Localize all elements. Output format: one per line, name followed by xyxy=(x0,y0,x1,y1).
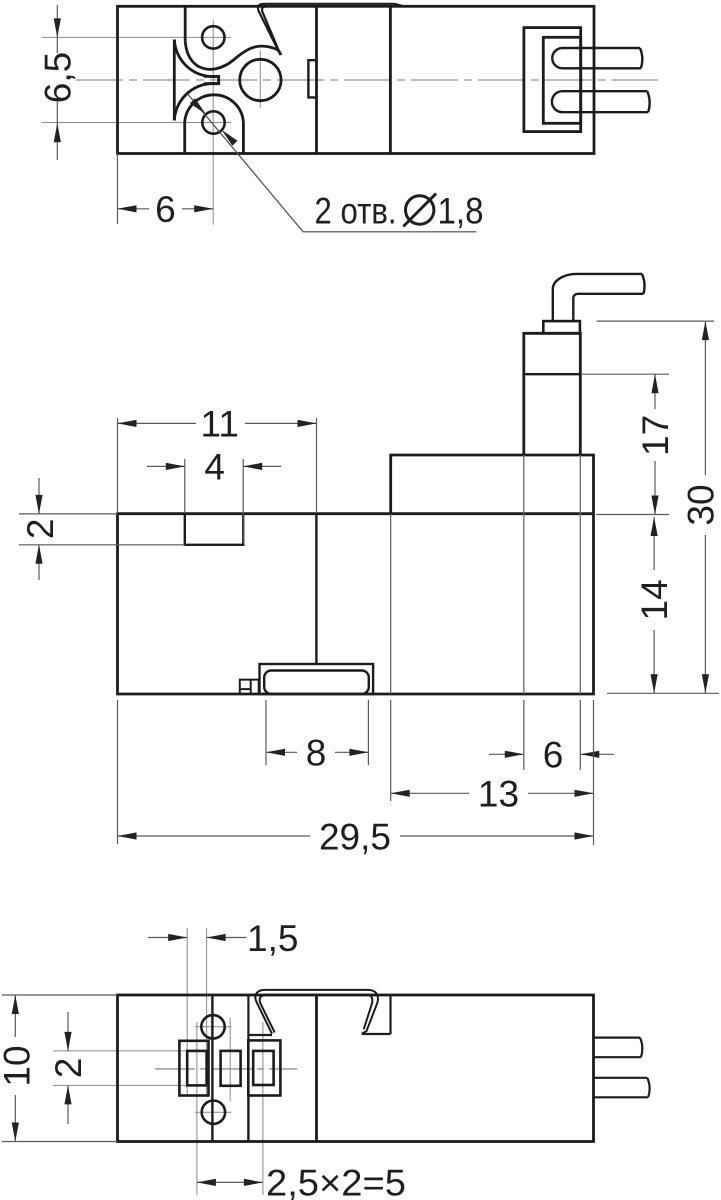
dimension 2 line xyxy=(38,478,40,580)
dimension 4 arrows xyxy=(166,463,262,470)
dimension 8 extensions xyxy=(266,700,368,765)
dimension 13 line xyxy=(391,792,594,794)
dimension 17 arrows xyxy=(651,374,658,514)
dimension 17 line xyxy=(654,374,656,514)
svg-text:29,5: 29,5 xyxy=(319,816,391,857)
dimension 11 arrows xyxy=(118,420,317,427)
dome around H2 xyxy=(185,95,244,154)
pin 2 bottom view xyxy=(594,1078,650,1098)
notch rect on division line xyxy=(308,60,316,97)
dimension 1,5 arrows xyxy=(168,934,225,941)
svg-text:14: 14 xyxy=(634,579,675,620)
dimension 8 line xyxy=(266,751,368,753)
pin 1 bottom view xyxy=(594,1038,643,1058)
notch on top edge xyxy=(185,514,243,545)
dimension 10 arrows xyxy=(12,995,19,1142)
leader arrowhead into hole lower-right xyxy=(222,130,238,146)
svg-text:13: 13 xyxy=(478,774,519,815)
clip spring outer line bottom view xyxy=(255,990,378,1034)
svg-text:6: 6 xyxy=(543,735,564,776)
left clip notch line xyxy=(248,995,272,1040)
dimension 29,5 extensions xyxy=(117,700,119,844)
svg-text:10: 10 xyxy=(0,1045,37,1086)
dimension 6 right arrows xyxy=(505,751,600,758)
pin 1 top view xyxy=(552,48,642,68)
circle B1 xyxy=(201,1015,224,1038)
crosshair circle C vertical xyxy=(259,51,261,108)
svg-text:30: 30 xyxy=(680,484,721,525)
dimension 11 extensions xyxy=(118,418,317,513)
svg-text:4: 4 xyxy=(204,447,225,488)
dimension 2,5x2=5 arrows xyxy=(197,1179,263,1186)
extension 1,5 verticals xyxy=(187,928,206,1097)
centerline bottom view xyxy=(155,1068,297,1070)
crosshair circle B1 xyxy=(195,1026,232,1028)
division line x=212.4 bottom xyxy=(211,995,213,1142)
diameter symbol xyxy=(403,194,436,227)
division line x=390.4 xyxy=(389,6,392,153)
crosshair hole H2 horizontal xyxy=(42,122,231,124)
lower outer arc around H2 xyxy=(174,83,218,120)
dimension 2 extensions xyxy=(19,514,185,545)
dimension 13 extensions xyxy=(391,514,594,845)
dimension 4 line xyxy=(147,465,281,467)
right clip notch xyxy=(362,995,391,1034)
slot C outer rect xyxy=(248,1040,280,1095)
dimension 29,5 line xyxy=(118,835,594,837)
tiny square detail xyxy=(240,680,259,694)
dimension 6,5 line xyxy=(56,5,58,160)
dimension 14 arrows xyxy=(651,517,658,693)
slot C inner rect xyxy=(253,1051,273,1085)
circle B2 xyxy=(202,1101,225,1124)
dimension 6 right extensions xyxy=(524,700,581,770)
crosshair holes vertical xyxy=(212,20,214,225)
connector inner rect xyxy=(543,37,580,123)
neck slot rectangle xyxy=(204,76,219,83)
dimension 6,5 arrow up xyxy=(54,123,61,142)
dimension 6 arrow right xyxy=(194,205,213,212)
tube division line xyxy=(524,373,581,375)
hole H2 xyxy=(202,111,224,133)
svg-text:2: 2 xyxy=(20,519,61,540)
dimension 6 right line xyxy=(489,753,614,755)
dimension 4 extensions xyxy=(185,459,243,544)
dimension 2 arrows xyxy=(35,495,42,564)
upper outer arc around H1 xyxy=(174,40,218,77)
dimension 11 line xyxy=(118,422,317,424)
body outline top view xyxy=(118,6,595,153)
dimension 2,5x2=5 line xyxy=(197,1181,263,1183)
extension body left edge down xyxy=(117,154,119,225)
svg-text:2: 2 xyxy=(48,1058,89,1079)
left clip notch line lower continuation xyxy=(247,1096,249,1142)
crosshair hole H1 horizontal xyxy=(42,36,231,38)
slot A inner rect xyxy=(187,1051,206,1086)
internal division line front xyxy=(315,514,317,664)
svg-text:1,8: 1,8 xyxy=(438,191,484,232)
dimension 30 line xyxy=(704,321,706,693)
svg-text:1,5: 1,5 xyxy=(247,918,298,959)
dimension 30 extensions xyxy=(597,321,719,693)
svg-text:2,5×2=5: 2,5×2=5 xyxy=(266,1163,406,1200)
internal top edge line to right xyxy=(391,512,594,515)
dimension 10 line xyxy=(14,995,16,1142)
inner pocket arc around H1 with S-curve into eyebrow arc over C xyxy=(185,41,281,70)
slot A outer rect xyxy=(179,1041,208,1096)
dimension 6 arrow left xyxy=(118,205,137,212)
spring clip inner line xyxy=(262,6,400,51)
division line x=316.5 xyxy=(315,6,318,153)
extension dim2 horizontals xyxy=(53,1051,187,1086)
dimension 6 line xyxy=(118,208,214,210)
circle C xyxy=(240,59,281,100)
leader line for holes xyxy=(188,94,477,232)
centerline top view xyxy=(76,79,658,81)
dimension 2 bottom arrows xyxy=(64,1032,71,1105)
svg-text:6,5: 6,5 xyxy=(37,52,78,103)
dimension 29,5 arrows xyxy=(118,832,594,839)
leader arrowhead into hole upper-left xyxy=(190,98,206,114)
body outline bottom view xyxy=(118,995,594,1142)
svg-text:11: 11 xyxy=(200,404,238,445)
svg-text:6: 6 xyxy=(155,189,176,230)
svg-text:2 отв.: 2 отв. xyxy=(315,191,397,232)
pin 2 top view xyxy=(552,91,650,112)
extension 2,5x2 verticals xyxy=(197,1022,263,1195)
bowtie left side line xyxy=(173,40,176,121)
clip spring inner line bottom view xyxy=(260,995,373,1033)
hole H1 xyxy=(202,26,224,48)
dimension 6,5 arrow down xyxy=(54,18,61,37)
left partition line x=185.2 xyxy=(184,6,187,41)
slot B rect xyxy=(221,1051,241,1086)
crosshair circle B2 xyxy=(195,1111,232,1113)
dimension 30 arrows xyxy=(702,321,709,693)
tube outline xyxy=(524,333,581,455)
latch inner rounded rect xyxy=(264,671,369,694)
dimension 17 extensions xyxy=(582,374,669,514)
connector outer rect xyxy=(524,28,581,132)
cap on tube xyxy=(543,321,580,333)
dimension 2 bottom line xyxy=(67,1012,69,1124)
slot B centerline vertical xyxy=(229,1018,231,1102)
body outline front view xyxy=(118,455,594,694)
svg-text:8: 8 xyxy=(306,733,327,774)
spring clip outer line xyxy=(258,4,403,55)
dimension 14 line xyxy=(653,517,655,693)
latch outer rect xyxy=(260,664,374,694)
svg-text:17: 17 xyxy=(635,415,676,456)
tube projection thin lines xyxy=(524,455,581,694)
division line x=316.5 bottom xyxy=(315,995,318,1142)
dimension 8 arrows xyxy=(266,749,368,756)
dimension 13 arrows xyxy=(391,790,594,797)
dimension 10 extensions xyxy=(2,995,118,1142)
bent wire outline xyxy=(553,274,645,321)
dimension 1,5 line xyxy=(148,937,247,939)
